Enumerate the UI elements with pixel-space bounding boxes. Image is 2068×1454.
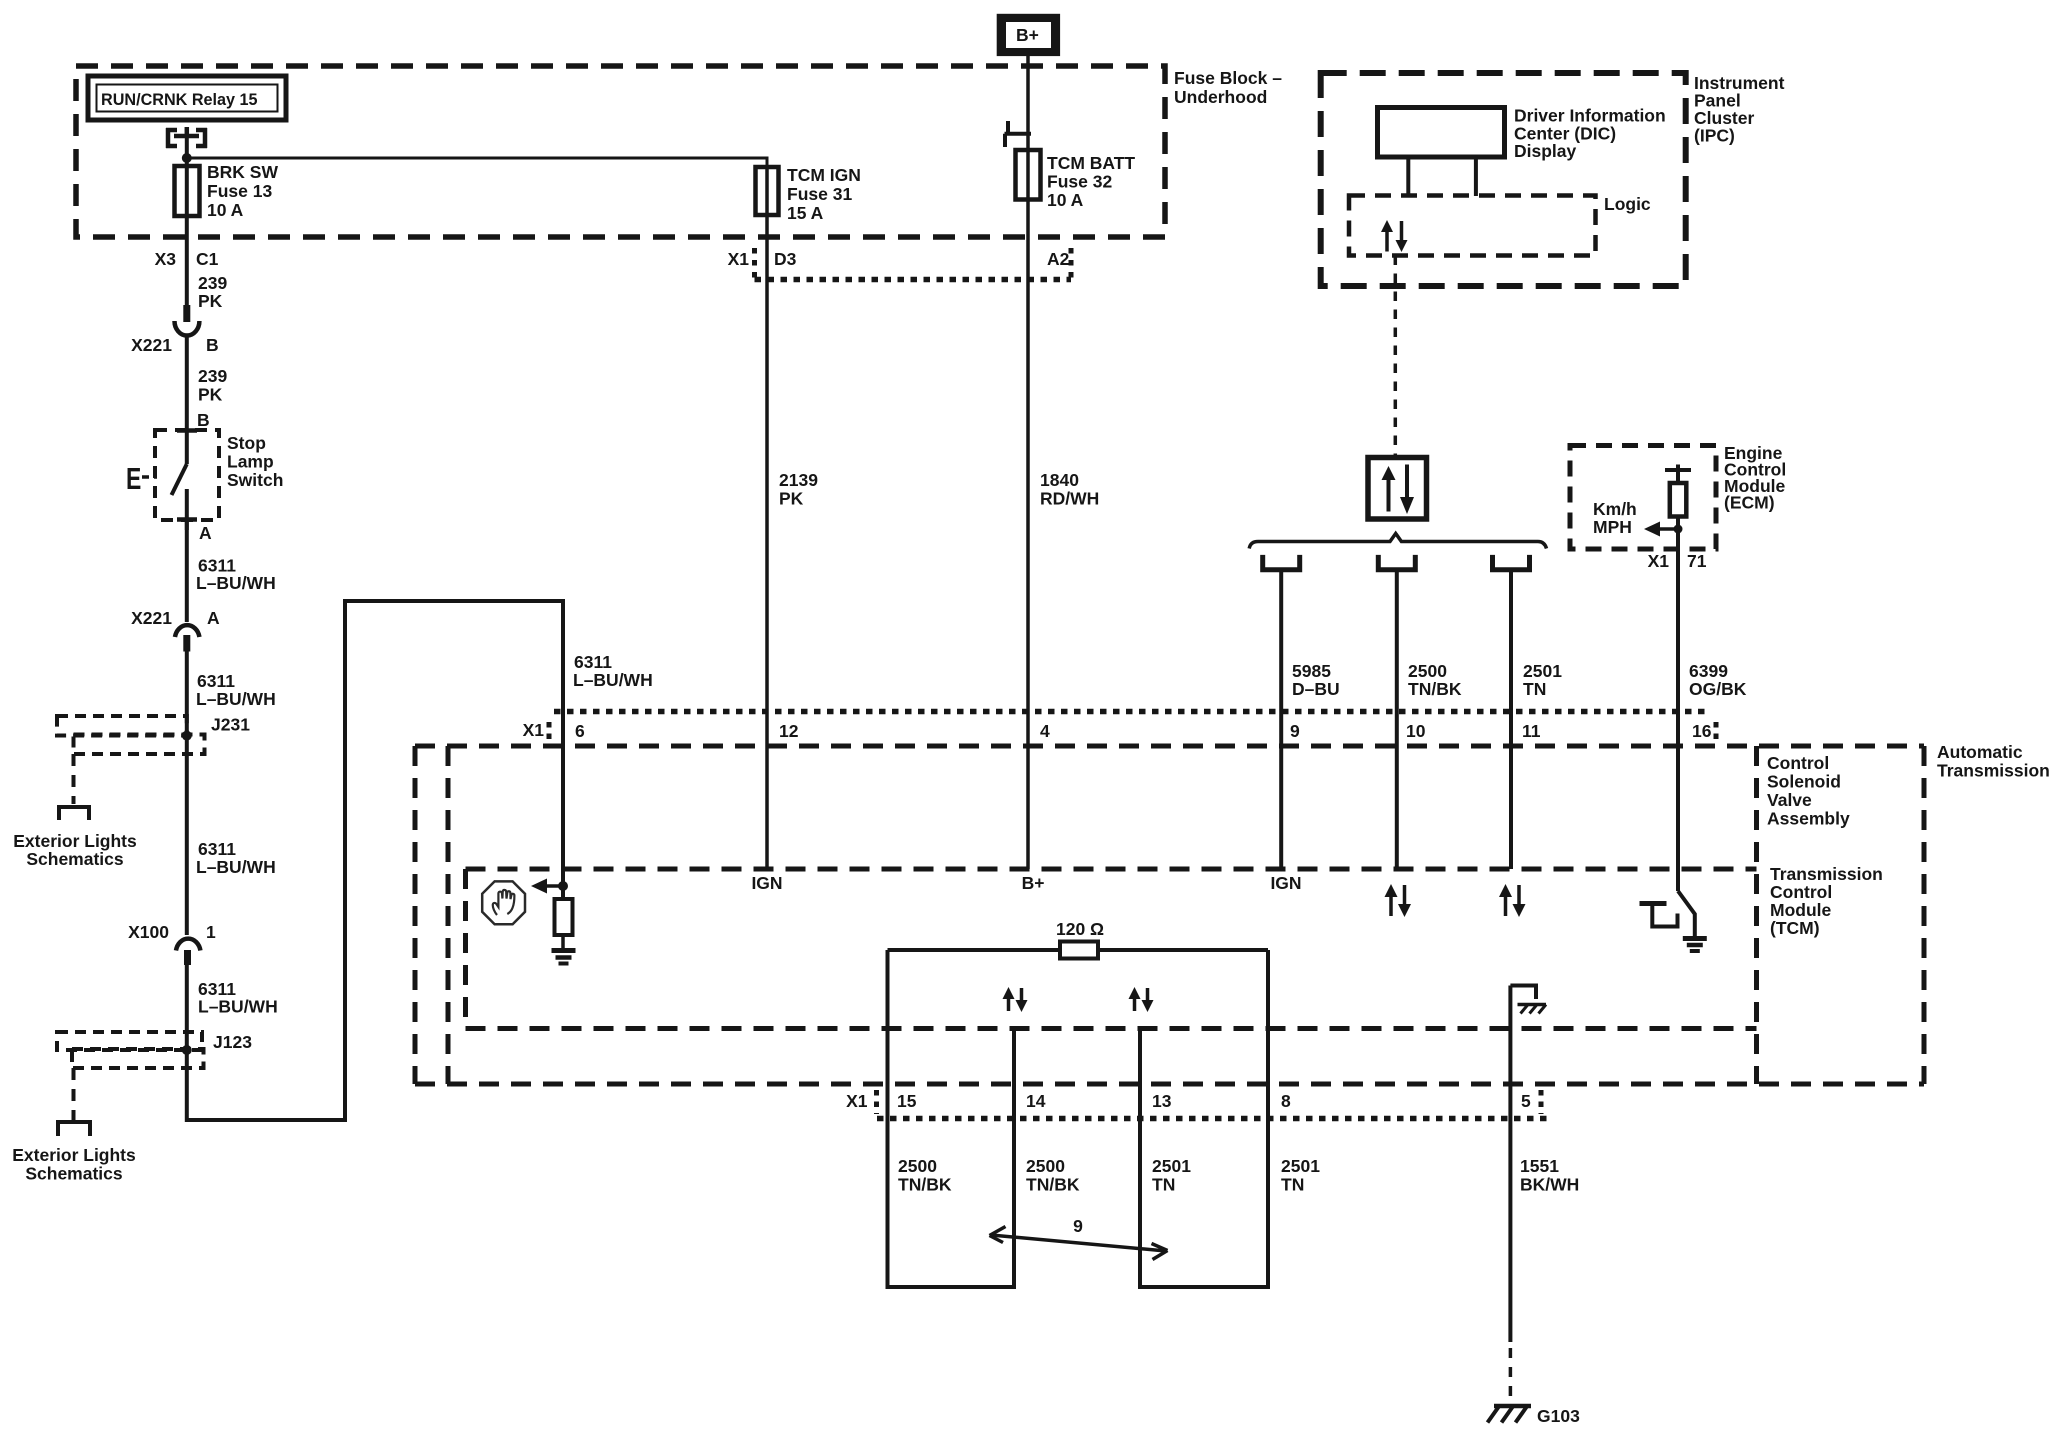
wire label 2501 TN pin13 (1152, 1156, 1191, 1195)
wire solenoid loop pin13 (1138, 1029, 1142, 1290)
wire fuse13 down to X3 row (185, 166, 189, 305)
label Fuse Block Underhood (1174, 68, 1282, 107)
svg-text:TN/BK: TN/BK (1026, 1175, 1080, 1195)
svg-text:Transmission: Transmission (1770, 864, 1883, 884)
wire label 2501 TN (1523, 661, 1562, 699)
svg-text:L–BU/WH: L–BU/WH (198, 997, 278, 1017)
TCM inner dashed box (466, 869, 1757, 1029)
svg-text:PK: PK (198, 385, 223, 405)
wire label 6311 L-BU/WH (196, 839, 276, 877)
svg-text:6311: 6311 (198, 839, 236, 859)
arrows up down solenoid pin13 (1129, 987, 1154, 1012)
stop lamp switch ticks (177, 431, 197, 520)
svg-text:(IPC): (IPC) (1694, 126, 1735, 146)
label Driver Information Center DIC Display (1514, 106, 1666, 162)
svg-text:8: 8 (1281, 1091, 1291, 1111)
svg-text:L–BU/WH: L–BU/WH (196, 573, 276, 593)
node junction pin6 (558, 881, 568, 891)
svg-text:B: B (197, 410, 210, 430)
switch SW stop lamp (172, 430, 187, 530)
svg-text:TN/BK: TN/BK (1408, 679, 1462, 699)
svg-text:L–BU/WH: L–BU/WH (196, 857, 276, 877)
off-page drop from J123 (72, 1068, 76, 1120)
svg-text:X1: X1 (1648, 551, 1670, 571)
svg-text:L–BU/WH: L–BU/WH (196, 689, 276, 709)
wire 6399 jog to TCM ground (1678, 891, 1695, 937)
svg-text:Fuse 31: Fuse 31 (787, 184, 852, 204)
svg-text:2501: 2501 (1152, 1156, 1191, 1176)
label Instrument Panel Cluster IPC (1694, 73, 1785, 146)
svg-text:PK: PK (198, 291, 223, 311)
serial data arrows box (1368, 458, 1427, 520)
fuse clip symbol (1005, 121, 1032, 147)
arrows up down logic (1381, 220, 1408, 252)
instrument panel cluster dashed box (1321, 73, 1686, 286)
fuse F31 TCM IGN (756, 165, 861, 223)
svg-text:Transmission: Transmission (1937, 761, 2050, 781)
label Control Solenoid Valve Assembly (1767, 753, 1850, 829)
svg-text:BRK SW: BRK SW (207, 162, 278, 182)
wire label 6311 L-BU/WH (196, 556, 276, 594)
svg-text:Control: Control (1770, 882, 1832, 902)
chassis ground hook TCM pin5 (1510, 986, 1546, 1014)
arrows up down TCM pin11 (1499, 884, 1526, 917)
resistor ECM (1670, 483, 1687, 517)
svg-text:Exterior Lights: Exterior Lights (13, 831, 137, 851)
svg-text:Underhood: Underhood (1174, 87, 1267, 107)
automatic transmission dashed box (415, 746, 1924, 1084)
wire horizontal to fuse 31 (187, 158, 767, 167)
svg-text:Km/h: Km/h (1593, 499, 1637, 519)
svg-text:5985: 5985 (1292, 661, 1331, 681)
svg-text:X100: X100 (128, 922, 169, 942)
svg-text:Automatic: Automatic (1937, 742, 2023, 762)
svg-text:Exterior Lights: Exterior Lights (12, 1145, 136, 1165)
svg-text:5: 5 (1521, 1091, 1531, 1111)
arrows up down solenoid pin14 (1003, 987, 1028, 1012)
svg-text:BK/WH: BK/WH (1520, 1175, 1579, 1195)
connector row X1 TCM top dotted (523, 712, 1716, 743)
logic dashed box (1349, 196, 1596, 256)
svg-text:B: B (206, 335, 219, 355)
splice J231 (57, 715, 250, 755)
svg-text:10: 10 (1406, 721, 1426, 741)
label Engine Control Module ECM (1724, 443, 1786, 513)
wire label 2500 TN/BK pin14 (1026, 1156, 1080, 1195)
socket cup pin11 (1493, 555, 1530, 570)
fuse F13 BRK SW (175, 162, 279, 220)
svg-text:120 Ω: 120 Ω (1056, 919, 1104, 939)
svg-text:2139: 2139 (779, 470, 818, 490)
svg-text:11: 11 (1522, 721, 1541, 741)
svg-text:Solenoid: Solenoid (1767, 772, 1841, 792)
label E pedal (126, 461, 157, 496)
svg-text:Schematics: Schematics (26, 849, 124, 869)
wire pin6 into TCM junction (561, 711, 565, 899)
stop lamp switch dashed box (155, 430, 219, 520)
svg-text:13: 13 (1152, 1091, 1172, 1111)
wire label 6399 OG/BK (1689, 661, 1747, 699)
svg-text:PK: PK (779, 489, 804, 509)
svg-text:B+: B+ (1016, 25, 1039, 45)
label Transmission Control Module TCM (1770, 864, 1883, 938)
svg-text:6399: 6399 (1689, 661, 1728, 681)
wire fuse31 to TCM pin 12 (765, 167, 769, 869)
wire X221B to stop lamp switch (185, 336, 189, 431)
label Exterior Lights Schematics (12, 1145, 136, 1184)
wire DIC legs (1408, 157, 1476, 196)
svg-text:TN/BK: TN/BK (898, 1175, 952, 1195)
svg-text:Module: Module (1770, 900, 1832, 920)
wire B+ down through fuse 32 to pin 4 (1026, 56, 1030, 869)
svg-text:L–BU/WH: L–BU/WH (573, 670, 653, 690)
svg-text:Fuse Block –: Fuse Block – (1174, 68, 1282, 88)
arrows up down TCM pin10 (1385, 884, 1412, 917)
socket cup pin10 (1378, 555, 1415, 570)
svg-text:Lamp: Lamp (227, 452, 274, 472)
svg-text:A: A (199, 523, 212, 543)
socket cup pin9 (1263, 555, 1300, 570)
bus brace (1249, 534, 1546, 549)
ground G103 chassis (1488, 1406, 1532, 1423)
svg-text:X3: X3 (155, 249, 177, 269)
wire label 239 PK (198, 366, 227, 405)
svg-text:Driver Information: Driver Information (1514, 106, 1666, 126)
svg-text:15: 15 (897, 1091, 917, 1111)
svg-text:(TCM): (TCM) (1770, 918, 1820, 938)
wire dashed to G103 (1509, 1348, 1513, 1404)
svg-text:Fuse 32: Fuse 32 (1047, 172, 1112, 192)
wire label 2501 TN pin8 (1281, 1156, 1320, 1195)
svg-text:C1: C1 (196, 249, 219, 269)
wire label 2139 PK (779, 470, 818, 509)
svg-text:6: 6 (575, 721, 585, 741)
svg-text:B+: B+ (1022, 873, 1045, 893)
svg-text:Logic: Logic (1604, 194, 1651, 214)
svg-text:Assembly: Assembly (1767, 809, 1850, 829)
wire X100 to J123 (185, 965, 189, 1050)
svg-text:MPH: MPH (1593, 517, 1632, 537)
svg-text:14: 14 (1026, 1091, 1046, 1111)
svg-text:Display: Display (1514, 141, 1577, 161)
svg-text:E: E (126, 461, 141, 496)
svg-text:TN: TN (1523, 679, 1546, 699)
wire label 2500 TN/BK (1408, 661, 1462, 699)
svg-text:TN: TN (1152, 1175, 1175, 1195)
svg-text:1: 1 (206, 922, 216, 942)
wire pin10 2500 (1395, 570, 1399, 869)
wire label 239 PK (198, 273, 227, 311)
label Km/h MPH (1593, 499, 1637, 537)
svg-text:Valve: Valve (1767, 790, 1812, 810)
svg-text:X1: X1 (846, 1091, 868, 1111)
svg-text:D–BU: D–BU (1292, 679, 1340, 699)
svg-text:10 A: 10 A (207, 200, 244, 220)
fuse block underhood dashed box (76, 66, 1165, 237)
svg-text:2500: 2500 (1408, 661, 1447, 681)
svg-text:Schematics: Schematics (25, 1164, 123, 1184)
wire 1551 pin5 (1508, 986, 1512, 1343)
svg-text:239: 239 (198, 366, 227, 386)
svg-text:239: 239 (198, 273, 227, 293)
svg-text:Fuse 13: Fuse 13 (207, 181, 272, 201)
wire stop lamp to X221 A (185, 520, 189, 622)
wire solenoid bottom left (888, 1285, 1015, 1289)
ground earth symbol TCM pin6 (552, 951, 576, 964)
display DIC box (1378, 108, 1505, 158)
wire solenoid bottom right (1140, 1285, 1268, 1289)
svg-text:71: 71 (1687, 551, 1707, 571)
svg-text:J123: J123 (213, 1032, 252, 1052)
svg-text:OG/BK: OG/BK (1689, 679, 1747, 699)
svg-text:Control: Control (1767, 753, 1829, 773)
wire J231 to X100 (185, 736, 189, 935)
connector row X1 D3 A2 fuse block (728, 248, 1071, 280)
ground earth symbol TCM pin16 (1683, 939, 1707, 952)
svg-text:TCM BATT: TCM BATT (1047, 153, 1135, 173)
wire label 6311 L-BU/WH (198, 979, 278, 1017)
connector row X1 TCM bottom (846, 1090, 1548, 1119)
svg-text:2501: 2501 (1281, 1156, 1320, 1176)
wire ECM pin71 down (1676, 517, 1680, 892)
label Exterior Lights Schematics (13, 831, 137, 869)
svg-text:X1: X1 (523, 720, 545, 740)
splice J123 (57, 1032, 252, 1068)
wire J123 down and branch to right (187, 601, 563, 1120)
hand warning octagon (482, 881, 525, 924)
wire label 6311 L-BU/WH branch (573, 652, 653, 690)
case ground tab symbol TCM (1640, 904, 1678, 927)
svg-text:Switch: Switch (227, 470, 283, 490)
connector label X1 71 ECM (1648, 551, 1707, 571)
svg-text:X221: X221 (131, 608, 172, 628)
svg-text:(ECM): (ECM) (1724, 493, 1775, 513)
svg-text:6311: 6311 (197, 671, 235, 691)
wire solenoid loop pin14 (1012, 1029, 1016, 1290)
arrow to hand symbol (531, 879, 563, 894)
connector X221 B inline (131, 305, 219, 355)
svg-text:IGN: IGN (1270, 873, 1301, 893)
wire dashed IPC to serial box (1394, 256, 1398, 457)
wire label 6311 L-BU/WH (196, 671, 276, 709)
svg-text:9: 9 (1290, 721, 1300, 741)
twisted pair arrow 9 (990, 1216, 1168, 1260)
svg-text:2500: 2500 (1026, 1156, 1065, 1176)
wire pin9 5985 (1279, 570, 1283, 869)
svg-text:IGN: IGN (751, 873, 782, 893)
node junction ECM output (1674, 525, 1683, 534)
terminal B+ battery box (997, 14, 1060, 56)
arrows up down serial box (1382, 465, 1415, 515)
svg-text:Stop: Stop (227, 433, 266, 453)
wire label 1840 RD/WH (1040, 470, 1099, 509)
svg-text:15 A: 15 A (787, 203, 824, 223)
wire label 1551 BK/WH (1520, 1156, 1579, 1195)
fuse F32 TCM BATT (1016, 150, 1136, 210)
connector X221 A inline (131, 608, 220, 652)
engine control module dashed box (1570, 446, 1716, 550)
svg-text:X221: X221 (131, 335, 172, 355)
svg-text:1551: 1551 (1520, 1156, 1559, 1176)
off-page bracket exterior lights (58, 1122, 90, 1136)
svg-text:9: 9 (1073, 1216, 1083, 1236)
svg-text:4: 4 (1040, 721, 1050, 741)
resistor in TCM pin6 (555, 899, 573, 935)
svg-text:TCM IGN: TCM IGN (787, 165, 861, 185)
svg-text:TN: TN (1281, 1175, 1304, 1195)
svg-text:2501: 2501 (1523, 661, 1562, 681)
wire label 2500 TN/BK pin15 (898, 1156, 952, 1195)
wire X221A to J231 (185, 651, 189, 736)
svg-text:12: 12 (779, 721, 799, 741)
wire pin11 2501 (1509, 570, 1513, 869)
wire solenoid loop pin15 (886, 950, 890, 1289)
arrow to Km/h MPH (1644, 522, 1678, 537)
wire relay to junction (185, 136, 189, 166)
connector label X3 C1 (155, 249, 219, 269)
relay contact symbol (166, 127, 207, 148)
connector X100 1 inline (128, 922, 216, 965)
svg-text:A: A (207, 608, 220, 628)
svg-text:16: 16 (1692, 721, 1712, 741)
node junction below relay (182, 153, 192, 163)
svg-text:RUN/CRNK Relay 15: RUN/CRNK Relay 15 (101, 91, 258, 109)
wire resistor to ground (561, 935, 565, 949)
sensor T symbol ECM (1665, 465, 1691, 484)
svg-text:1840: 1840 (1040, 470, 1079, 490)
relay K RUN/CRNK Relay 15 box (88, 76, 286, 120)
svg-text:X1: X1 (728, 249, 750, 269)
svg-text:6311: 6311 (574, 652, 612, 672)
label Stop Lamp Switch (227, 433, 283, 490)
wire solenoid loop pin8 (1266, 950, 1270, 1289)
svg-text:G103: G103 (1537, 1406, 1580, 1426)
label Automatic Transmission (1937, 742, 2050, 781)
wire label 5985 D-BU (1292, 661, 1340, 699)
svg-text:10 A: 10 A (1047, 190, 1084, 210)
svg-text:D3: D3 (774, 249, 797, 269)
svg-text:RD/WH: RD/WH (1040, 489, 1099, 509)
solenoid assembly bus with 120 ohm resistor (888, 919, 1269, 959)
svg-text:A2: A2 (1047, 249, 1070, 269)
off-page bracket exterior lights (59, 807, 89, 820)
off-page drop from J231 (72, 754, 76, 804)
svg-text:2500: 2500 (898, 1156, 937, 1176)
svg-text:J231: J231 (211, 715, 250, 735)
